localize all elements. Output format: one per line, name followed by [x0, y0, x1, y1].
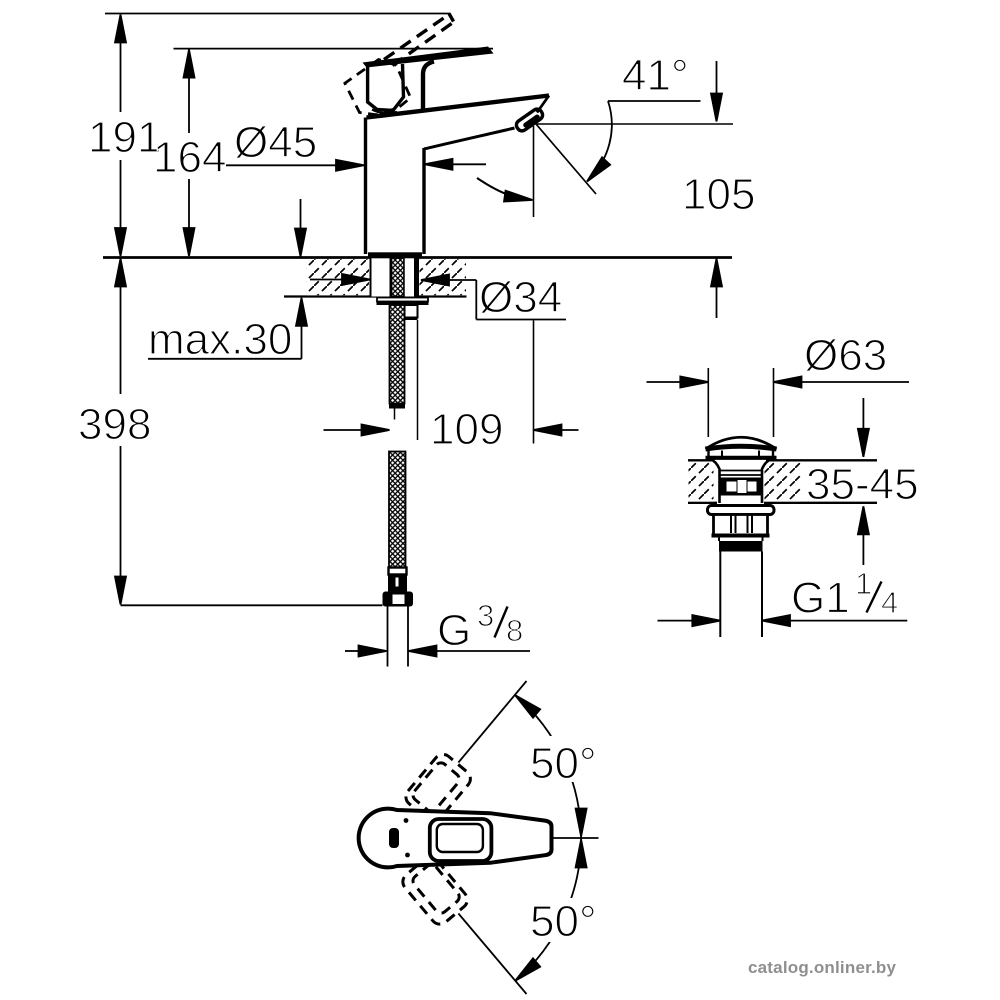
41 degree arc — [588, 101, 612, 180]
dimension Ø34 leader — [310, 273, 566, 322]
hose end fitting — [388, 575, 407, 593]
svg-text:164: 164 — [153, 133, 226, 182]
washer under deck — [377, 298, 428, 302]
dimension 398 — [78, 259, 383, 606]
svg-text:50°: 50° — [530, 739, 597, 788]
aerator — [514, 107, 544, 133]
50deg leg upper — [458, 681, 526, 763]
dashed raised handle (grip) — [345, 60, 411, 115]
drain body flare — [710, 459, 720, 503]
41 degree inclined leg — [536, 124, 596, 194]
braided hose segment 1 — [390, 305, 405, 404]
center line — [553, 837, 599, 839]
handle loop post — [423, 62, 434, 110]
dimension max.30 — [148, 199, 307, 364]
svg-text:105: 105 — [682, 170, 755, 219]
svg-text:4: 4 — [881, 585, 898, 620]
svg-text:41°: 41° — [622, 51, 689, 100]
solid handle lever — [363, 47, 494, 68]
spout top edge — [367, 96, 550, 118]
outlet vertical line — [533, 126, 535, 217]
drain flange — [708, 506, 775, 515]
tailpipe hub — [718, 538, 720, 542]
svg-text:Ø63: Ø63 — [804, 331, 887, 380]
deck hatching right — [420, 259, 467, 295]
handle hole inner — [437, 824, 483, 852]
svg-text:G1: G1 — [791, 574, 850, 623]
second supply line — [417, 320, 419, 440]
svg-text:35-45: 35-45 — [806, 460, 919, 509]
reference line (164 extent) — [174, 48, 494, 50]
arc arrowheads — [512, 691, 540, 718]
cap skirt — [707, 450, 709, 457]
braided hose segment 2 — [389, 452, 406, 568]
dashed raised handle (lever) — [384, 14, 454, 66]
deck bottom line — [284, 295, 467, 297]
50deg arc upper — [515, 695, 581, 838]
svg-text:Ø45: Ø45 — [234, 118, 317, 167]
drain cap dome — [706, 437, 777, 449]
dimension Ø63 — [647, 331, 910, 388]
dashed rotated handle lower — [399, 854, 471, 928]
drain cage — [721, 478, 763, 496]
svg-text:109: 109 — [430, 405, 503, 454]
dimension G3/8 — [345, 598, 530, 657]
spout underside curve — [424, 128, 515, 149]
dimension G1 1/4 — [658, 566, 908, 626]
drain deck bottom line — [688, 502, 717, 504]
dimension 191 — [88, 15, 161, 257]
shank white gap — [405, 258, 414, 297]
faucet body right edge — [422, 148, 425, 254]
svg-text:398: 398 — [78, 400, 151, 449]
deck hatching left — [306, 259, 369, 295]
dimension 109 — [324, 321, 579, 455]
drain body rings — [720, 470, 763, 472]
svg-text:max.30: max.30 — [148, 315, 292, 364]
grip chin arc — [372, 110, 397, 114]
tailpipe — [719, 552, 721, 638]
watermark — [748, 958, 896, 978]
drain deck top line — [688, 459, 715, 461]
hose thin line below cap — [394, 409, 396, 420]
spout tip edge — [537, 96, 549, 113]
shank black bar — [414, 258, 419, 297]
shank white pipe — [371, 258, 391, 297]
hose nut — [383, 592, 414, 607]
svg-text:191: 191 — [88, 113, 161, 162]
svg-text:1: 1 — [855, 566, 872, 601]
threaded stud (braided) — [392, 258, 405, 297]
handle marker — [389, 828, 399, 848]
svg-text:Ø34: Ø34 — [479, 273, 562, 322]
countertop deck top line — [103, 256, 732, 259]
hose ferrule — [389, 568, 407, 575]
41 degree underline — [608, 100, 701, 102]
reference line top (191 extent) — [105, 13, 450, 15]
spout outlet level line — [536, 123, 733, 125]
dimension Ø45 — [226, 118, 486, 171]
drain deck hatching — [689, 462, 714, 502]
handle hole outer — [430, 819, 492, 861]
dimension 35-45 — [802, 398, 919, 565]
dimension 164 — [153, 50, 226, 256]
50deg arc lower — [515, 838, 581, 981]
flow direction curved arrow — [477, 178, 515, 197]
50 deg labels — [528, 736, 606, 782]
svg-text:3: 3 — [477, 598, 494, 633]
svg-text:50°: 50° — [530, 897, 597, 946]
G3/8 pipe — [387, 607, 389, 667]
drain locknut — [714, 515, 768, 536]
svg-text:G: G — [437, 606, 471, 655]
50deg leg lower — [458, 914, 526, 995]
handle top view outline — [359, 809, 552, 868]
stub tube — [405, 305, 418, 318]
solid handle grip face — [368, 64, 404, 111]
faucet body left edge — [364, 118, 367, 255]
faucet base gasket — [368, 252, 422, 258]
Ø63 extension lines — [707, 368, 709, 437]
handle dots — [404, 818, 409, 823]
svg-text:8: 8 — [506, 613, 523, 648]
dashed rotated handle upper — [402, 751, 474, 825]
dimension 105 — [682, 61, 755, 318]
